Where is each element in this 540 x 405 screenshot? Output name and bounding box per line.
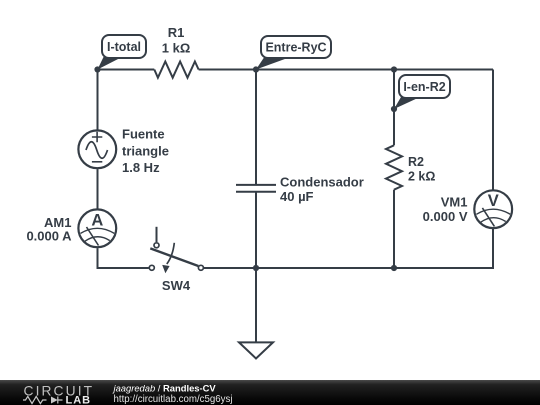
svg-text:R2: R2 bbox=[408, 155, 424, 169]
svg-text:V: V bbox=[488, 192, 499, 210]
svg-text:Entre-RyC: Entre-RyC bbox=[265, 41, 326, 55]
svg-text:SW4: SW4 bbox=[162, 278, 191, 293]
svg-text:I-en-R2: I-en-R2 bbox=[403, 80, 445, 94]
label R2 value bbox=[408, 155, 435, 184]
logo resistor-diode glyph bbox=[23, 396, 63, 403]
svg-text:http://circuitlab.com/c5g6ysj: http://circuitlab.com/c5g6ysj bbox=[114, 394, 233, 405]
svg-text:2 kΩ: 2 kΩ bbox=[408, 170, 435, 184]
junction node at I-en-R2 bbox=[391, 106, 397, 112]
ground bbox=[239, 342, 273, 358]
junction node at I-total bbox=[94, 66, 100, 72]
junction node at Entre-RyC bbox=[253, 66, 259, 72]
wire R2 junction to top-right corner bbox=[394, 69, 493, 71]
switch SW4 bbox=[149, 227, 203, 273]
svg-text:1.8 Hz: 1.8 Hz bbox=[122, 160, 160, 175]
ammeter AM1 circle bbox=[78, 209, 116, 247]
svg-text:0.000 A: 0.000 A bbox=[26, 229, 72, 244]
svg-text:1 kΩ: 1 kΩ bbox=[162, 41, 191, 56]
svg-text:40 µF: 40 µF bbox=[280, 189, 314, 204]
wire bottom rail to ground bbox=[255, 268, 257, 342]
wire source bottom to ammeter top bbox=[97, 169, 99, 208]
svg-text:triangle: triangle bbox=[122, 143, 169, 158]
capacitor Condensador plates bbox=[236, 185, 276, 192]
label R1 value bbox=[162, 25, 191, 56]
svg-text:R1: R1 bbox=[168, 25, 185, 40]
node flag I-en-R2 bbox=[394, 75, 450, 109]
svg-text:0.000 V: 0.000 V bbox=[423, 209, 468, 224]
resistor R2 bbox=[386, 145, 402, 189]
wire R2 branch upper bbox=[393, 70, 395, 146]
wire switch left to ammeter bottom bbox=[98, 248, 149, 268]
node flag Entre-RyC bbox=[256, 36, 331, 70]
junction node top of R2 branch bbox=[391, 66, 397, 72]
wire right vertical to voltmeter bbox=[492, 70, 494, 190]
svg-text:A: A bbox=[91, 211, 103, 229]
svg-text:I-total: I-total bbox=[107, 40, 141, 54]
label AM1 value bbox=[26, 215, 72, 244]
wire center vertical to capacitor top bbox=[255, 70, 257, 185]
svg-text:Fuente: Fuente bbox=[122, 127, 165, 142]
svg-text:LAB: LAB bbox=[66, 394, 92, 405]
wire top-left horizontal to R1 bbox=[98, 69, 155, 71]
wire bottom from capacitor junction to switch right bbox=[204, 267, 256, 269]
voltage source V1 circle bbox=[78, 130, 116, 168]
label Fuente triangle 1.8 Hz bbox=[122, 127, 169, 175]
label Condensador value bbox=[280, 175, 364, 205]
wire capacitor bottom to bottom rail bbox=[255, 192, 257, 268]
svg-text:Condensador: Condensador bbox=[280, 175, 364, 190]
resistor R1 bbox=[154, 62, 198, 78]
junction node bottom capacitor bbox=[253, 265, 259, 271]
voltmeter VM1 circle bbox=[474, 190, 512, 228]
wire bottom from R2 junction to capacitor junction bbox=[256, 267, 394, 269]
junction node bottom R2 bbox=[391, 265, 397, 271]
footer bar bbox=[0, 380, 540, 405]
node flag I-total bbox=[98, 35, 147, 70]
svg-text:jaagredab / Randles-CV: jaagredab / Randles-CV bbox=[112, 383, 217, 394]
wire R1 to Entre-RyC node bbox=[199, 69, 256, 71]
wire Entre-RyC node to R2 junction bbox=[256, 69, 394, 71]
svg-text:VM1: VM1 bbox=[441, 195, 468, 210]
wire left vertical node to source top bbox=[97, 70, 99, 130]
label VM1 value bbox=[423, 195, 468, 224]
wire voltmeter to bottom-right bbox=[394, 229, 493, 268]
wire R2 bottom to bottom rail bbox=[393, 190, 395, 268]
